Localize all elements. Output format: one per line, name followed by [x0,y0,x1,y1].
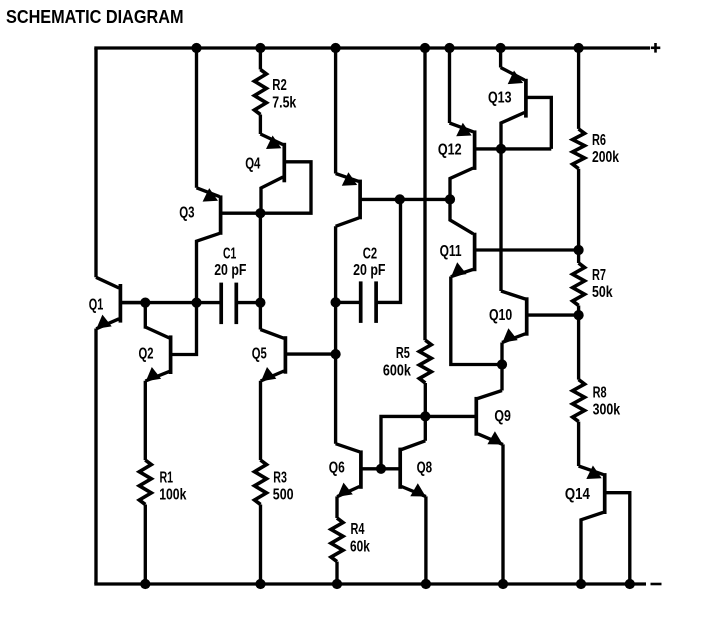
svg-text:300k: 300k [593,401,621,418]
resistor R1 [139,460,151,504]
svg-text:C2: C2 [363,245,377,262]
wire [259,48,262,70]
junction [496,43,506,53]
wire [577,250,580,263]
junction [421,579,431,589]
svg-text:20 pF: 20 pF [353,262,386,279]
svg-text:20 pF: 20 pF [214,262,247,279]
svg-text:60k: 60k [350,538,370,555]
junction [625,579,635,589]
label Q1 [89,296,104,313]
wire [577,306,580,316]
junction [191,43,201,53]
svg-text:600k: 600k [383,362,411,379]
junction [395,194,405,204]
label C1 value [214,262,247,279]
transistor Q1 [96,277,145,329]
transistor Q11 [450,199,579,276]
transistor Q4 [260,134,311,213]
label Q13 [488,90,512,107]
wire [501,444,504,584]
wire [335,562,338,584]
junction [576,579,586,589]
label Q10 [489,307,512,324]
wire [423,48,426,340]
resistor R3 [255,460,267,504]
wire [499,149,502,291]
transistor Q9 [425,365,503,445]
svg-text:R3: R3 [273,470,287,487]
resistor R7 [573,263,585,306]
capacitor C2 [336,199,401,323]
wire [451,277,502,365]
junction [420,411,430,421]
resistor R8 [573,380,585,422]
svg-text:R2: R2 [272,77,287,94]
wire V- rail [94,582,646,585]
svg-text:Q13: Q13 [488,90,512,107]
transistor Q5 [260,303,335,382]
svg-text:50k: 50k [592,284,613,301]
wire [259,115,262,135]
svg-text:R1: R1 [160,470,174,487]
wire [577,169,580,250]
resistor R2 [254,70,266,115]
wire [424,383,427,416]
svg-text:R8: R8 [593,385,607,402]
wire [259,381,262,460]
wire [334,226,337,443]
label R7 [592,267,606,284]
svg-text:Q6: Q6 [329,460,345,477]
junction [140,579,150,589]
svg-text:R6: R6 [592,132,606,149]
junction [498,579,508,589]
junction [331,297,341,307]
label R6 [592,132,606,149]
label R3 [273,470,287,487]
label C2 [363,245,377,262]
wire [335,496,338,518]
junction [376,464,386,474]
junction [331,349,341,359]
label R2 [272,77,287,94]
junction [255,43,265,53]
label Q4 [245,155,260,172]
wire [94,48,97,277]
junction [331,43,341,53]
label Q2 [139,345,154,362]
wire [94,329,97,585]
svg-text:Q12: Q12 [438,141,462,158]
svg-text:Q3: Q3 [179,205,194,222]
label C1 [223,246,236,263]
transistor Q10 [501,291,579,343]
wire [577,315,580,380]
resistor R6 [573,129,585,169]
label R1 [160,470,174,487]
label Q6 [329,460,345,477]
svg-text:100k: 100k [159,487,186,504]
label Q8 [417,460,433,477]
wire [577,48,580,129]
transistor Q12 [450,123,552,200]
wire [259,505,262,585]
svg-text:7.5k: 7.5k [272,94,296,111]
label R3 value [273,487,294,504]
label Q14 [565,486,590,503]
svg-text:Q1: Q1 [89,296,104,313]
capacitor C1 [221,283,260,325]
svg-text:R4: R4 [351,521,365,538]
svg-text:Q5: Q5 [252,345,267,362]
wire [448,48,451,123]
svg-text:Q4: Q4 [245,155,260,172]
label Q3 [179,205,194,222]
svg-text:Q2: Q2 [139,345,154,362]
label R1 value [159,487,186,504]
transistor Q14 [579,466,630,585]
label C2 value [353,262,386,279]
resistor R4 [331,518,343,562]
svg-text:R7: R7 [592,267,606,284]
junction [496,144,506,154]
wire [381,416,425,468]
junction [445,194,455,204]
transistor Q13 [501,68,552,149]
wire [500,343,503,365]
junction [140,298,150,308]
svg-text:SCHEMATIC DIAGRAM: SCHEMATIC DIAGRAM [6,6,184,27]
wire [400,198,450,201]
svg-text:Q10: Q10 [489,307,512,324]
junction [444,43,454,53]
label R6 value [592,149,619,166]
label R2 value [272,94,296,111]
label R4 value [350,538,370,555]
svg-text:Q9: Q9 [494,408,511,425]
node + terminal [651,43,661,53]
svg-text:Q11: Q11 [440,243,462,260]
label Q9 [494,408,511,425]
junction [255,208,265,218]
svg-text:R5: R5 [396,345,410,362]
junction [191,298,201,308]
wire [334,48,337,174]
label R4 [351,521,365,538]
wire [259,213,262,302]
label R7 value [592,284,613,301]
label Q11 [440,243,462,260]
junction [574,245,584,255]
wire [499,48,502,68]
transistor Q8 [381,416,426,496]
wire [120,301,219,304]
transistor Q2 [145,303,196,382]
wire V+ rail [94,46,650,49]
svg-text:200k: 200k [592,149,619,166]
label R5 value [383,362,411,379]
wire [195,48,198,188]
transistor Q6 [336,444,381,497]
node - terminal [651,583,662,586]
junction [332,579,342,589]
junction [420,43,430,53]
svg-text:Q14: Q14 [565,486,590,503]
svg-text:C1: C1 [223,246,236,263]
junction [497,359,507,369]
junction [255,298,265,308]
wire [144,505,147,585]
junction [574,310,584,320]
wire [144,381,147,460]
junction [255,579,265,589]
junction [574,43,584,53]
label Q5 [252,345,267,362]
resistor R5 [419,340,431,383]
label R8 [593,385,607,402]
transistor Q3 [197,188,261,303]
label R5 [396,345,410,362]
transistor Q7 [336,172,400,226]
wire [577,422,580,466]
title text [6,6,184,27]
svg-text:Q8: Q8 [417,460,433,477]
label R8 value [593,401,621,418]
wire [424,496,427,584]
svg-text:500: 500 [273,487,294,504]
label Q12 [438,141,462,158]
